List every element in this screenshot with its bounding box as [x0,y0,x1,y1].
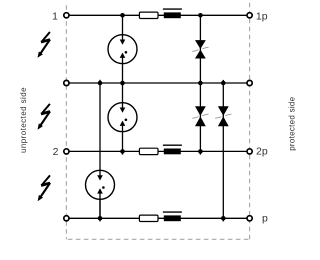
junction bus/GDT1-GDT2 [120,81,125,86]
lightning bolt surge arrow 2 [38,104,51,130]
terminal bus left [64,80,69,85]
svg-text:unprotected side: unprotected side [19,87,28,153]
TVS diode D2 (bus - line3) [192,106,208,126]
terminal 2 [64,149,69,154]
svg-text:1p: 1p [256,11,268,23]
lightning bolt surge arrow 1 [38,32,51,58]
TVS diode D3 (bus - ground line) [215,106,231,126]
wire TVS3 column (line2 down across line3 to line4) [222,83,224,218]
terminal ground left [64,216,69,221]
dashed boundary bottom horizontal [66,238,249,240]
gas discharge tube GDT2 (bus - line3) [108,83,137,151]
wire stub below line3 junction at TVS2 column [199,151,201,154]
resistor R line1 [139,12,158,18]
dashed boundary right vertical (protected side limit) [249,2,251,239]
svg-text:2p: 2p [256,146,268,158]
wire line 2 (middle bus) [69,82,247,84]
wire stub above bus junction at GDT3 column [99,80,101,83]
terminal p [247,216,252,221]
resistor R line3 [139,148,158,154]
junction bus/TVS1-TVS2 [198,81,203,86]
svg-text:1: 1 [52,11,58,23]
wire GDT3 bottom to line 4 [99,189,101,219]
wire stub below line4 junction at GDT3 column [99,218,101,221]
terminal 1 [64,13,69,18]
gas discharge tube GDT1 (line1 - bus) [108,15,137,83]
svg-text:p: p [262,212,268,224]
junction line4/GDT3 [98,216,103,221]
wire TVS1 column (line1 to line2) [199,15,201,83]
wire stub below line4 junction at TVS3 column [222,218,224,221]
lightning bolt surge arrow 3 [38,175,51,201]
wire TVS2 column (line2 to line3) [199,83,201,151]
wire line 1 (terminal 1 to 1p) [69,14,247,16]
junction bus/TVS3 [221,81,226,86]
wire stub below line3 junction at GDT2 column [122,151,124,154]
svg-text:protected side: protected side [288,96,297,150]
junction line1/TVS1 [198,13,203,18]
inductor L line3 (filled) [164,149,181,155]
junction line1/GDT1 [120,13,125,18]
svg-text:2: 2 [53,146,59,158]
terminal 2p [247,149,252,154]
wire stub above bus junction at TVS3 column [222,80,224,83]
wire line 3 (terminal 2 to 2p) [69,150,247,152]
junction bus/GDT3 column [98,81,103,86]
terminal 1p [247,13,252,18]
terminal bus right [247,80,252,85]
inductor core line line1 [163,8,182,10]
inductor L line1 (filled) [164,12,181,18]
junction line3/GDT2 [120,149,125,154]
TVS diode D1 (line1 - bus) [192,40,208,58]
inductor core line line3 [163,144,182,146]
junction line3/TVS2 [198,149,203,154]
junction line4/TVS3 [221,216,226,221]
resistor R line4 [139,215,158,221]
wire line 4 (ground line to p) [69,217,247,219]
inductor core line line4 [163,211,182,213]
wire GDT3 column (line2 bus down across line3 to GDT3) [99,83,101,179]
dashed boundary left vertical (unprotected side limit) [65,2,67,239]
inductor L line4 (filled) [164,215,181,221]
gas discharge tube GDT3 (bus - ground line) [86,170,115,219]
